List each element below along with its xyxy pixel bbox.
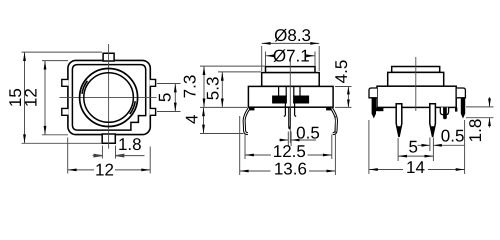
right leg root bbox=[326, 107, 332, 110]
right corner stub below body bbox=[455, 108, 457, 112]
dimension 5.3 ext top bbox=[218, 71, 262, 73]
dimension 12 bottom line bbox=[68, 169, 151, 171]
svg-text:0.5: 0.5 bbox=[441, 126, 465, 145]
body outer outline bbox=[68, 60, 150, 134]
svg-text:1.8: 1.8 bbox=[118, 135, 142, 154]
dimension Ø7.1 line segs bbox=[266, 55, 316, 57]
left leg bbox=[372, 98, 376, 118]
dimension 7.3 arrows bbox=[203, 66, 206, 107]
dimension 1.8 right line w arrows bbox=[489, 97, 491, 128]
svg-text:0.5: 0.5 bbox=[296, 123, 320, 142]
left side tab lower bbox=[62, 108, 69, 115]
left leg bbox=[244, 108, 249, 134]
svg-text:5: 5 bbox=[408, 138, 417, 157]
top tab bbox=[103, 53, 114, 61]
tick mark lower-right bbox=[130, 101, 135, 114]
dimension Ø8.3 ext right bbox=[318, 46, 320, 71]
dimension 4 arrows bbox=[202, 107, 205, 133]
dimension Ø7.1 arrows bbox=[266, 54, 316, 57]
svg-text:13.6: 13.6 bbox=[274, 160, 307, 179]
button tier1 bbox=[392, 67, 440, 73]
dimension 5 right arrows bbox=[398, 155, 433, 158]
contact box left bbox=[273, 96, 287, 103]
dimension 7.3 ext top bbox=[200, 65, 265, 67]
tick mark upper-left bbox=[82, 81, 87, 94]
dimension Ø8.3 line bbox=[262, 42, 320, 44]
dimension 14 arrows bbox=[369, 168, 465, 171]
dimension 12 bottom ext right bbox=[149, 147, 151, 174]
dimension 15 ext bottom bbox=[22, 142, 103, 144]
dimension 5 ext upper bbox=[157, 83, 181, 85]
dimension 14 ext right bbox=[464, 120, 466, 174]
centerline bbox=[415, 57, 417, 111]
dimension 13.6 ext right bbox=[334, 116, 336, 175]
center boss pin bbox=[444, 107, 447, 119]
svg-text:Ø8.3: Ø8.3 bbox=[274, 26, 311, 45]
dimension 4 ext bottom bbox=[200, 133, 244, 135]
pin2 bbox=[430, 104, 436, 137]
right side tab lower bbox=[150, 108, 156, 115]
svg-text:12: 12 bbox=[95, 160, 114, 179]
tower line left bbox=[278, 86, 280, 96]
dimension 15 arrow down bbox=[23, 134, 26, 143]
button outer circle bbox=[80, 69, 138, 127]
dimension 5 arrow down bbox=[174, 103, 177, 112]
dimension 4.5 ext top bbox=[335, 86, 352, 88]
dimension 4.5 line bbox=[347, 87, 349, 108]
dimension 5 arrow up bbox=[174, 84, 177, 93]
left leg root bbox=[249, 107, 255, 110]
dimension 12 bottom ext left bbox=[67, 138, 69, 174]
dimension 12.5 ext left bbox=[244, 135, 246, 160]
pin1 tip line bbox=[396, 126, 401, 136]
dimension 1.8 line right w arrow bbox=[116, 154, 145, 157]
bottom tab bbox=[102, 134, 115, 143]
dimension 0.5 line w arrows bbox=[279, 139, 316, 141]
svg-text:7.3: 7.3 bbox=[180, 75, 199, 99]
button tier2 bbox=[262, 73, 320, 87]
pin2 tip line bbox=[430, 126, 435, 136]
dimension 7.3 line bbox=[203, 66, 205, 107]
dimension 4.5 arrows bbox=[347, 87, 350, 108]
button tier2 bbox=[388, 72, 444, 86]
dimension 13.6 arrows bbox=[240, 170, 336, 173]
left ear bbox=[369, 88, 377, 98]
body inner outline with step notch bbox=[72, 65, 145, 131]
svg-text:5.3: 5.3 bbox=[204, 77, 223, 101]
dimension Ø8.3 arrows bbox=[262, 42, 320, 45]
dimension 15 ext top bbox=[22, 51, 103, 53]
centerline bbox=[289, 62, 291, 144]
body bbox=[377, 86, 456, 107]
svg-text:4: 4 bbox=[182, 114, 201, 123]
dimension 15 arrow up bbox=[23, 52, 26, 61]
right ear bbox=[457, 88, 466, 98]
dimension 14 ext left bbox=[368, 120, 370, 174]
dimension 13.6 ext left bbox=[239, 116, 241, 175]
svg-text:12: 12 bbox=[22, 88, 41, 107]
dimension 0.5 ext right bbox=[290, 132, 292, 147]
stem lines bbox=[286, 86, 294, 96]
center boss U bbox=[440, 107, 448, 114]
tower line right bbox=[299, 86, 301, 96]
dimension 12 bottom arrows bbox=[68, 169, 151, 172]
dimension 4 line bbox=[203, 107, 205, 133]
pin1 bbox=[396, 104, 402, 137]
dimension Ø8.3 ext left bbox=[261, 46, 263, 71]
svg-text:5: 5 bbox=[156, 93, 175, 102]
dimension 0.5 right ext lines bbox=[430, 138, 434, 162]
dimension 15 line bbox=[24, 52, 26, 143]
center pin dark bbox=[288, 108, 291, 130]
dimension 12 arrow up bbox=[44, 61, 47, 70]
dimension 5.3 arrows bbox=[221, 72, 224, 108]
dimension 5 line bbox=[174, 84, 176, 112]
button tier1 bbox=[266, 67, 316, 73]
center pin inner white bbox=[289, 108, 291, 127]
dimension 4 ext top (body bottom) bbox=[200, 106, 247, 108]
svg-text:12.5: 12.5 bbox=[273, 142, 306, 161]
dimension 12.5 line bbox=[245, 154, 332, 156]
left side tab upper bbox=[62, 79, 69, 86]
dimension Ø7.1 ext left bbox=[265, 52, 267, 66]
dimension 12.5 ext right bbox=[331, 135, 333, 160]
dimension 14 line bbox=[369, 169, 465, 171]
dimension 1.8 ext left bbox=[101, 146, 103, 159]
dimension 0.5 right line w arrows bbox=[418, 144, 466, 146]
dimension 1.8 ext right bbox=[115, 146, 117, 159]
dimension 13.6 line bbox=[240, 170, 336, 172]
dimension 5 ext lower bbox=[157, 111, 181, 113]
button inner circle bbox=[84, 73, 134, 123]
dimension 5.3 line bbox=[221, 72, 223, 108]
svg-text:Ø7.1: Ø7.1 bbox=[273, 46, 310, 65]
body bbox=[248, 86, 333, 107]
dimension 1.8 right ext lines bbox=[466, 107, 494, 118]
dimension 12 ext top bbox=[42, 60, 68, 62]
svg-text:14: 14 bbox=[406, 158, 425, 177]
dimension 12 ext bottom bbox=[42, 134, 68, 136]
svg-text:1.8: 1.8 bbox=[466, 119, 485, 143]
dimension Ø7.1 ext right bbox=[314, 52, 316, 66]
right leg bbox=[461, 98, 465, 118]
dimension 12 arrow down bbox=[44, 126, 47, 135]
dimension 12.5 arrows bbox=[245, 154, 332, 157]
right side tab upper bbox=[150, 79, 156, 86]
dimension 5 right line bbox=[398, 155, 433, 157]
dimension 4.5 ext bottom bbox=[335, 106, 352, 108]
svg-text:4.5: 4.5 bbox=[332, 60, 351, 84]
contact box right bbox=[294, 96, 309, 103]
left corner stub below body bbox=[376, 108, 384, 112]
dimension 1.8 line left w arrow bbox=[93, 154, 103, 157]
centerline horizontal bbox=[59, 96, 156, 98]
dimension 0.5 ext left bbox=[287, 132, 289, 147]
center boss bbox=[284, 103, 296, 116]
dimension 5 right ext left bbox=[397, 138, 399, 161]
dimension 12 line bbox=[44, 61, 46, 135]
right leg bbox=[331, 108, 336, 134]
centerline vertical bbox=[108, 44, 110, 149]
